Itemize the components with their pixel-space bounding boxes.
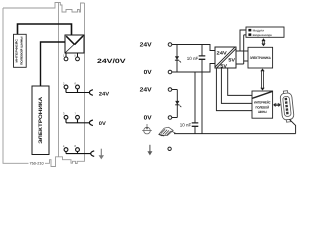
contact row 3 (pins 3/7): [64, 115, 89, 122]
svg-text:750-210: 750-210: [30, 162, 44, 166]
I/O modules box (data contacts): [246, 27, 284, 37]
svg-text:ЭЛЕКТРОНИКА: ЭЛЕКТРОНИКА: [250, 56, 271, 60]
terminal 24V field: [168, 88, 172, 92]
terminal earth: [168, 147, 171, 150]
module outline (left coupler profile): [3, 3, 85, 167]
D-sub connector: [280, 90, 295, 122]
svg-text:ИНТЕРФЕЙС: ИНТЕРФЕЙС: [15, 39, 19, 63]
wire 24V rail: [172, 45, 215, 51]
wire converter to electronics (5V): [236, 50, 248, 52]
earth arrow (right schematic): [147, 145, 152, 156]
functional earth symbol: [142, 124, 152, 134]
wire fieldbus box to converter (top): [18, 24, 72, 35]
svg-text:ввода-вывода: ввода-вывода: [253, 33, 272, 37]
earth rail: [174, 133, 296, 135]
contact row 2 (pins 2/6): [64, 85, 89, 92]
shield wire connector to rail: [289, 119, 295, 133]
terminal 0V system: [168, 70, 172, 74]
contact row 1 (pins 1/5): [64, 53, 79, 61]
wire converter to I/O modules box: [240, 30, 248, 51]
jumper contact row 2: [89, 90, 93, 96]
wire C1 to earth rail: [201, 72, 203, 134]
svg-text:24V: 24V: [140, 87, 152, 94]
svg-text:24V: 24V: [140, 42, 152, 49]
electronics box (left module): [32, 86, 49, 155]
earth arrow (left module): [99, 149, 104, 160]
svg-text:ИНТЕРФЕЙС: ИНТЕРФЕЙС: [254, 101, 271, 105]
svg-text:0V: 0V: [99, 121, 107, 127]
svg-text:10 nF: 10 nF: [180, 123, 192, 128]
capacitor C1 10nF: [187, 45, 206, 73]
fieldbus interface box (right): [252, 91, 273, 118]
svg-text:0V: 0V: [144, 115, 152, 122]
svg-text:0V: 0V: [144, 69, 152, 76]
electronics box (right): [248, 47, 273, 68]
svg-text:10 nF: 10 nF: [187, 56, 199, 61]
svg-text:5V: 5V: [220, 63, 228, 68]
terminal 0V field: [168, 116, 172, 120]
wire 0V rail: [172, 64, 215, 73]
suppressor diode D2 (field): [172, 90, 181, 118]
svg-text:24V: 24V: [99, 91, 110, 97]
wire electronics box to converter: [41, 42, 66, 86]
contact row 4 (pins 4/8): [64, 148, 91, 154]
DIN rail symbol: [159, 127, 176, 136]
arrow fieldbus interface/connector: [273, 103, 281, 107]
dc/dc converter (left module): [65, 35, 84, 53]
svg-text:24V/0V: 24V/0V: [97, 58, 127, 65]
svg-text:Модули: Модули: [253, 28, 265, 32]
data bus arrow (modules/electronics): [261, 38, 265, 46]
wire I/O modules box to electronics: [236, 35, 248, 64]
label 750-210: [29, 161, 46, 166]
terminal 24V system: [168, 43, 172, 47]
suppressor diode D1: [175, 45, 181, 73]
fieldbus interface box (left module): [14, 34, 27, 67]
wire converter to fieldbus interface (isolated 5V): [216, 68, 252, 111]
svg-text:ШИНЫ: ШИНЫ: [258, 110, 267, 114]
svg-text:ПОЛЕВОЙ: ПОЛЕВОЙ: [256, 105, 270, 109]
svg-text:ПОЛЕВОЙ ШИНЫ: ПОЛЕВОЙ ШИНЫ: [20, 36, 24, 65]
arrow electronics/fieldbus interface: [260, 69, 264, 91]
jumper contact row 4: [91, 151, 95, 157]
svg-text:ЭЛЕКТРОНИКА: ЭЛЕКТРОНИКА: [38, 96, 44, 143]
svg-text:5V: 5V: [228, 58, 236, 63]
jumper contact row 3: [89, 120, 93, 126]
capacitor C2 10nF: [180, 72, 199, 134]
dc/dc converter 24V/5V: [215, 47, 236, 69]
svg-text:24V: 24V: [217, 50, 228, 55]
